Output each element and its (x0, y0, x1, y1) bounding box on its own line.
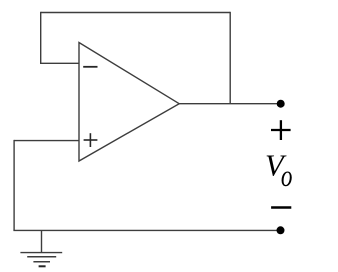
op-amp non-inverting pin label + (84, 133, 98, 147)
op-amp U1 triangle (79, 43, 179, 162)
wire non-inverting input (14, 140, 79, 142)
wire left vertical (13, 140, 15, 231)
ground bar 2 (27, 256, 56, 258)
wire feedback left vertical (40, 12, 42, 64)
ground bar 1 (20, 252, 62, 254)
ground bar 3 (33, 261, 50, 263)
node bottom terminal dot (277, 226, 285, 234)
node output terminal dot (277, 100, 285, 108)
label - polarity (271, 206, 291, 208)
svg-text:o: o (281, 159, 293, 193)
ground stem (41, 230, 43, 252)
wire bottom horizontal (13, 229, 277, 231)
ground bar 4 (39, 265, 46, 267)
wire feedback right vertical (229, 12, 231, 104)
op-amp inverting pin label - (83, 66, 97, 68)
wire output (179, 103, 277, 105)
wire inverting input (40, 62, 79, 64)
label + polarity (271, 120, 291, 140)
wire feedback top horizontal (41, 12, 231, 14)
